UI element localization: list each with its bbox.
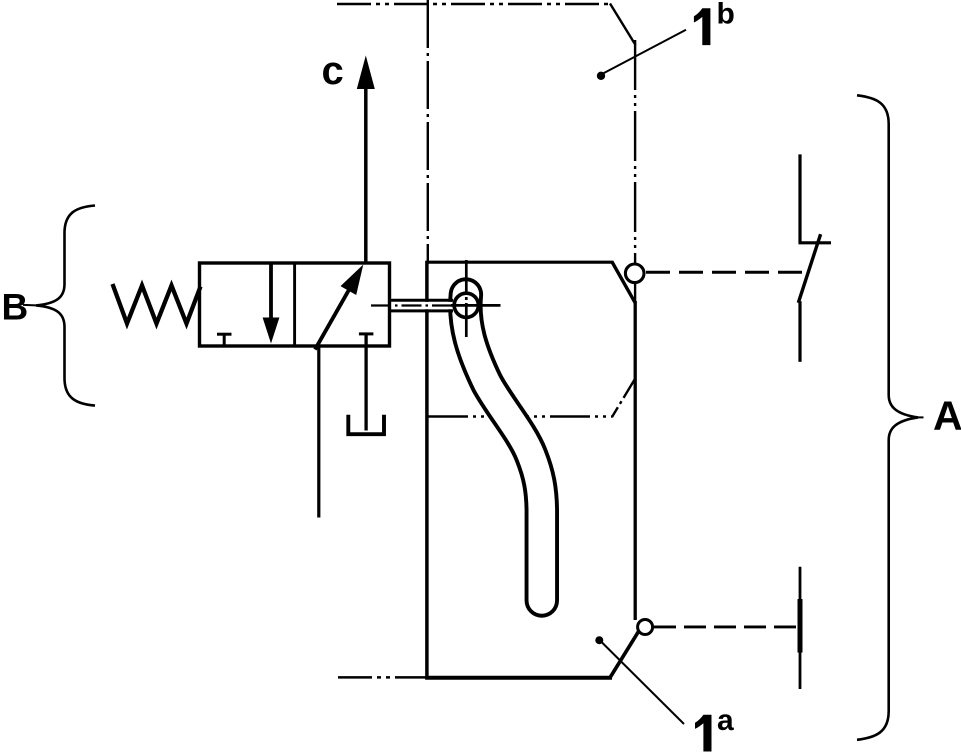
body left edge [425,261,429,680]
label A [933,393,961,439]
lower dashed actuation link [654,625,798,628]
phantom vertical centerline right x=635 [634,40,636,302]
valve left-cell down arrow [263,263,280,344]
brace B [23,206,95,406]
label 1b [694,0,735,45]
rod dash-dot centerline [371,304,455,306]
body bottom edge [425,676,612,680]
valve right-cell blocked-port tack [359,332,374,335]
return spring [113,284,201,324]
svg-text:B: B [2,287,29,328]
svg-text:b: b [717,0,735,31]
upper dashed actuation link [646,271,806,274]
label 1a [695,704,734,752]
reference dot 1a [595,636,603,644]
piston rod from valve to cam pin [389,300,453,311]
leader line 1a [602,642,685,724]
svg-text:A: A [933,393,961,439]
exhaust cup symbol [348,415,384,434]
exhaust stem line [364,334,367,431]
lower contact bar [799,567,802,689]
valve body box [200,263,390,346]
lower pivot circle port [638,620,653,635]
output arrow c [357,56,375,264]
valve right-cell diagonal flow arrow [315,265,363,350]
valve cell divider [293,263,296,346]
label B [2,287,29,328]
leader line 1b [603,30,686,74]
phantom chamfer mid right [612,379,635,417]
phantom chamfer top right [610,4,636,46]
phantom line top horizontal [337,3,611,6]
phantom horizontal mid line y=416.5 [428,415,613,417]
phantom vertical centerline left x=428 [427,0,429,261]
supply line below valve [317,346,320,518]
phantom horizontal bottom left [338,676,427,679]
svg-text:c: c [322,49,344,93]
body right edge [634,301,637,620]
upper pivot circle port [625,264,644,283]
body top edge [426,261,614,264]
body bottom-right chamfer [610,632,638,678]
cam slot (S-shaped groove) [465,295,541,601]
pin vertical centerline [451,260,501,339]
body top-right chamfer [612,262,635,303]
upper limit switch [798,154,831,361]
svg-text:a: a [717,704,734,737]
cam follower pin circle [454,293,478,317]
valve left-cell blocked-port tack [217,334,232,346]
label c [322,49,344,93]
brace A [857,95,924,740]
reference dot 1b [597,72,605,80]
